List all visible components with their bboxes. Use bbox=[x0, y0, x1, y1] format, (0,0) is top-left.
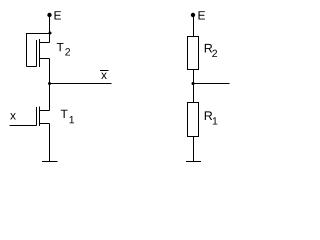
svg-text:1: 1 bbox=[69, 114, 75, 126]
svg-text:2: 2 bbox=[212, 48, 218, 60]
svg-text:x: x bbox=[10, 109, 16, 123]
svg-text:2: 2 bbox=[65, 47, 71, 59]
wire: output line to x-bar bbox=[50, 83, 112, 85]
svg-text:T: T bbox=[56, 40, 64, 54]
wire: input lead to T1 gate bbox=[10, 125, 37, 127]
wire: R1 to ground bbox=[193, 137, 195, 162]
resistor R1 bbox=[188, 103, 199, 137]
label x-bar (output) bbox=[100, 70, 109, 72]
svg-text:T: T bbox=[60, 107, 68, 121]
svg-text:1: 1 bbox=[212, 116, 218, 128]
wire: T2 source down to output node bbox=[49, 59, 51, 84]
ground (right) bbox=[186, 161, 201, 163]
resistor R2 bbox=[188, 37, 199, 70]
node: T2 gate-drain junction bbox=[49, 32, 52, 35]
svg-text:E: E bbox=[53, 9, 61, 23]
wire: supply lead to R2 bbox=[193, 15, 195, 37]
wire: gate feedback left segment bbox=[26, 33, 28, 67]
svg-text:E: E bbox=[197, 9, 205, 23]
node: divider junction bbox=[192, 82, 195, 85]
ground (left) bbox=[42, 161, 58, 163]
supply terminal dot E (left) bbox=[47, 13, 51, 17]
wire: E supply lead down bbox=[49, 15, 51, 34]
wire: T1 source down to ground bbox=[49, 124, 51, 162]
transistor T1 bbox=[37, 107, 50, 127]
wire: gate lead of T2 bbox=[27, 66, 37, 68]
wire: output node down to T1 drain bbox=[49, 84, 51, 111]
wire: R2 to divider node bbox=[193, 70, 195, 103]
svg-text:x: x bbox=[101, 68, 107, 82]
transistor T2 bbox=[37, 34, 50, 68]
supply terminal dot E (right) bbox=[191, 13, 195, 17]
node: output junction bbox=[48, 82, 51, 85]
wire: divider output line bbox=[194, 83, 230, 85]
wire: gate feedback top segment bbox=[26, 33, 50, 35]
